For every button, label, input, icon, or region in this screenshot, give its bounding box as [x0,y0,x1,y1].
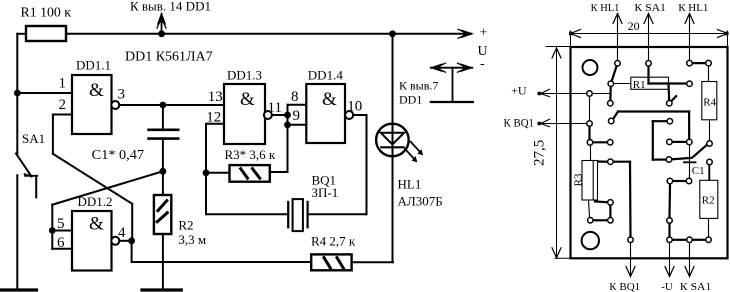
svg-text:+U: +U [511,84,527,98]
svg-text:27,5: 27,5 [532,140,548,166]
svg-text:C1: C1 [692,165,705,177]
svg-text:R3* 3,6 к: R3* 3,6 к [225,147,276,162]
svg-text:R2: R2 [702,194,715,206]
svg-text:&: & [89,214,104,235]
svg-text:&: & [322,89,337,110]
svg-text:К HL1: К HL1 [591,2,620,14]
svg-text:2: 2 [59,97,67,113]
svg-text:DD1: DD1 [399,93,422,107]
svg-text:К SA1: К SA1 [680,281,711,292]
svg-text:10: 10 [347,99,362,115]
svg-text:&: & [240,89,255,110]
svg-text:К SA1: К SA1 [634,2,666,14]
svg-text:-: - [480,57,485,72]
svg-text:R4: R4 [703,96,716,108]
svg-text:8: 8 [291,89,299,105]
svg-text:К HL1: К HL1 [678,2,708,14]
svg-text:R3: R3 [573,173,585,186]
svg-text:13: 13 [208,89,223,105]
svg-text:4: 4 [118,225,126,241]
svg-text:20: 20 [628,19,640,33]
svg-text:R2: R2 [178,218,193,233]
svg-text:6: 6 [57,235,65,251]
svg-text:DD1 К561ЛА7: DD1 К561ЛА7 [125,50,213,65]
svg-text:-U: -U [661,281,673,292]
svg-text:3: 3 [118,87,126,103]
svg-text:3,3 м: 3,3 м [178,232,206,247]
svg-text:АЛ307Б: АЛ307Б [398,194,443,209]
svg-text:1: 1 [59,76,67,92]
svg-text:11: 11 [268,100,282,116]
svg-text:R4 2,7 к: R4 2,7 к [311,234,356,249]
svg-text:+: + [480,26,488,41]
svg-text:К выв. 14 DD1: К выв. 14 DD1 [130,0,211,14]
svg-text:C1* 0,47: C1* 0,47 [92,147,145,162]
svg-text:DD1.4: DD1.4 [308,68,344,83]
svg-text:9: 9 [293,108,301,124]
svg-text:5: 5 [57,216,65,232]
svg-text:R1: R1 [633,79,646,91]
svg-text:R1 100 к: R1 100 к [21,4,72,19]
svg-text:ЗП-1: ЗП-1 [312,185,339,200]
svg-text:HL1: HL1 [398,177,422,192]
svg-text:DD1.3: DD1.3 [227,68,262,83]
svg-text:DD1.2: DD1.2 [78,194,113,209]
svg-text:К выв.7: К выв.7 [399,79,438,93]
svg-text:SA1: SA1 [22,131,45,146]
svg-text:К BQ1: К BQ1 [504,116,535,130]
svg-text:К BQ1: К BQ1 [609,281,640,292]
svg-text:&: & [89,80,104,101]
svg-text:DD1.1: DD1.1 [76,58,111,73]
